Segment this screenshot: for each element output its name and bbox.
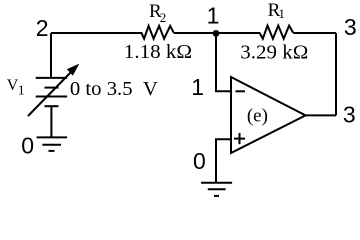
svg-text:0 to 3.5 V: 0 to 3.5 V [70,78,159,100]
wire: op-amp output to node 3 [306,114,337,116]
op-amp non-inverting pin mark + [234,133,245,144]
wire: node 2 corner down to V1 top plate [50,33,52,78]
op-amp U1 triangle [231,77,306,153]
wire: top rail from node 2 corner to R2 [51,32,142,34]
node 1 junction dot [213,30,220,37]
label V1 [7,77,25,98]
svg-text:2: 2 [36,15,49,41]
svg-text:1: 1 [18,84,25,99]
wire: non-inverting input to ground [216,139,231,183]
voltage source V1 battery plates [36,78,67,106]
resistor R1 [260,26,294,39]
svg-text:1.18 kΩ: 1.18 kΩ [124,41,192,63]
ground of V1 [37,137,68,151]
wire: R2 to node 1 junction [174,32,216,34]
svg-text:2: 2 [160,10,167,25]
wire: R1 to node 3 corner [293,32,336,34]
label R2 [149,1,166,25]
resistor R2 [141,26,173,39]
svg-text:3: 3 [343,101,356,127]
wire: node 1 to R1 [216,32,260,34]
svg-text:1: 1 [191,74,204,100]
wire: V1 bottom to ground [50,106,52,137]
svg-text:0: 0 [193,148,206,174]
svg-text:3.29 kΩ: 3.29 kΩ [240,41,308,63]
ground of op-amp non-inverting input [201,183,232,196]
label R1 [268,0,285,21]
svg-text:(e): (e) [247,106,268,127]
wire: node 1 junction down to inverting input [216,33,231,91]
svg-text:0: 0 [21,133,34,159]
op-amp inverting pin mark - [236,90,246,92]
svg-text:1: 1 [278,6,285,21]
variable arrow of V1 [28,64,79,116]
svg-text:3: 3 [344,14,357,40]
svg-text:1: 1 [207,3,220,29]
wire: node 3 feedback vertical [335,33,337,115]
